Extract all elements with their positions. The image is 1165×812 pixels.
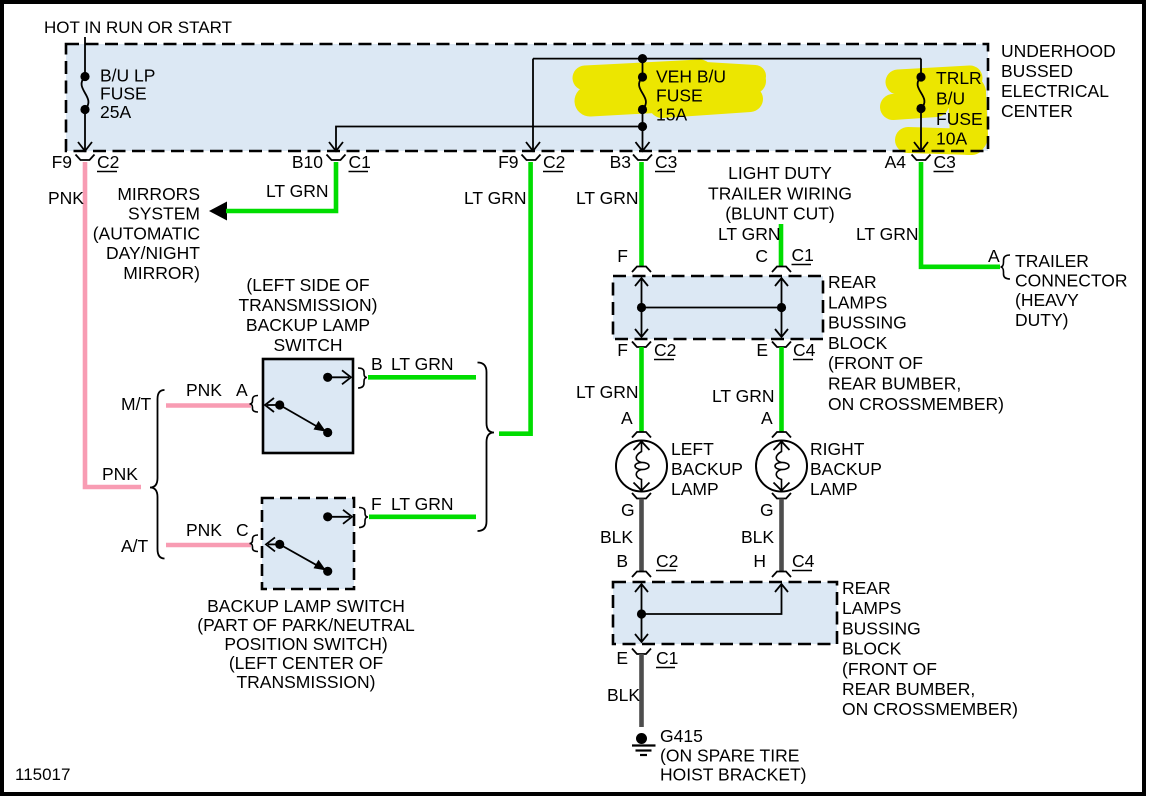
svg-text:A: A (988, 246, 1000, 266)
svg-text:C3: C3 (655, 152, 677, 172)
svg-text:(ON SPARE TIRE: (ON SPARE TIRE (660, 745, 799, 765)
svg-text:25A: 25A (100, 102, 131, 122)
svg-text:LT GRN: LT GRN (391, 354, 454, 374)
svg-text:B: B (616, 551, 628, 571)
svg-text:F9: F9 (52, 152, 72, 172)
svg-text:LT GRN: LT GRN (464, 188, 527, 208)
svg-text:LAMP: LAMP (810, 479, 858, 499)
svg-text:(BLUNT CUT): (BLUNT CUT) (725, 204, 835, 224)
svg-text:F: F (617, 246, 628, 266)
svg-text:DAY/NIGHT: DAY/NIGHT (106, 243, 200, 263)
label BACKUP LAMP SWITCH (PART OF PARK/NEUTRAL POSITION SWITCH) (LEFT CENTER OF TRANSMISSION) (197, 596, 415, 692)
svg-text:H: H (753, 551, 766, 571)
svg-text:BACKUP: BACKUP (810, 459, 882, 479)
svg-text:B/U: B/U (936, 89, 965, 109)
pin C C1 (block1 top right) (755, 245, 814, 272)
svg-text:BLOCK: BLOCK (828, 333, 888, 353)
wire LT GRN blunt cut (718, 224, 781, 267)
ground G415 (632, 726, 807, 785)
svg-text:LIGHT DUTY: LIGHT DUTY (728, 163, 832, 183)
pin E C4 (block1 bottom right) (756, 340, 815, 360)
pin E C1 (block2 bottom) (616, 648, 678, 668)
svg-text:A4: A4 (885, 152, 907, 172)
svg-text:C: C (236, 520, 249, 540)
svg-text:BUSSING: BUSSING (842, 618, 921, 638)
svg-text:REAR BUMBER,: REAR BUMBER, (842, 679, 975, 699)
svg-text:LT GRN: LT GRN (712, 386, 775, 406)
svg-text:C2: C2 (654, 340, 676, 360)
highlight TRLR B/U fuse (893, 78, 974, 142)
label UNDERHOOD BUSSED ELECTRICAL CENTER (1001, 41, 1116, 121)
wire LT GRN block1 to left lamp (576, 347, 642, 432)
svg-text:DUTY): DUTY) (1015, 310, 1068, 330)
svg-text:ON CROSSMEMBER): ON CROSSMEMBER) (828, 394, 1004, 414)
pin B3 C3 (610, 152, 678, 172)
svg-text:LT GRN: LT GRN (856, 224, 919, 244)
wire fuse B/U LP to pin F9 (78, 110, 92, 152)
svg-text:VEH B/U: VEH B/U (656, 67, 726, 87)
svg-text:ON CROSSMEMBER): ON CROSSMEMBER) (842, 699, 1018, 719)
label REAR LAMPS BUSSING BLOCK 1 (828, 272, 1004, 414)
pin B10 C1 (292, 152, 371, 172)
svg-text:TRANSMISSION): TRANSMISSION) (236, 672, 375, 692)
svg-text:B: B (371, 354, 383, 374)
svg-text:TRANSMISSION): TRANSMISSION) (238, 295, 377, 315)
svg-text:C4: C4 (793, 340, 816, 360)
brace combining B and F wires (478, 363, 495, 532)
wire junction to pin B3 (636, 127, 650, 152)
svg-text:REAR BUMBER,: REAR BUMBER, (828, 374, 961, 394)
svg-text:FUSE: FUSE (936, 109, 983, 129)
svg-text:C4: C4 (792, 551, 815, 571)
svg-text:A: A (236, 380, 248, 400)
wire LT GRN A4 to trailer connector (856, 162, 1000, 267)
svg-text:UNDERHOOD: UNDERHOOD (1001, 41, 1116, 61)
wire BLK right lamp to block2 (741, 499, 782, 572)
svg-text:(HEAVY: (HEAVY (1015, 290, 1079, 310)
pin H C4 (block2 top right) (753, 551, 814, 577)
svg-text:BLK: BLK (607, 685, 640, 705)
wire hot feed into box (84, 37, 86, 76)
svg-text:C2: C2 (543, 152, 565, 172)
wire LT GRN B (368, 354, 476, 377)
svg-text:PNK: PNK (186, 380, 222, 400)
svg-text:LAMPS: LAMPS (828, 292, 887, 312)
svg-text:HOIST BRACKET): HOIST BRACKET) (660, 765, 807, 785)
svg-text:PNK: PNK (48, 188, 84, 208)
svg-text:MIRRORS: MIRRORS (117, 184, 200, 204)
svg-text:CENTER: CENTER (1001, 101, 1073, 121)
wire fuse VEH to junction (638, 110, 647, 132)
svg-text:BUSSED: BUSSED (1001, 61, 1073, 81)
svg-text:(PART OF PARK/NEUTRAL: (PART OF PARK/NEUTRAL (197, 615, 415, 635)
wire bus top (533, 54, 921, 63)
wire junction to pin B10 (329, 127, 643, 152)
svg-text:CONNECTOR: CONNECTOR (1015, 271, 1127, 291)
svg-text:LT GRN: LT GRN (576, 188, 639, 208)
svg-text:A/T: A/T (121, 536, 149, 556)
svg-text:TRLR: TRLR (936, 68, 982, 88)
svg-text:LEFT: LEFT (671, 439, 714, 459)
svg-text:SWITCH: SWITCH (273, 335, 342, 355)
svg-text:E: E (616, 648, 628, 668)
svg-text:(LEFT CENTER OF: (LEFT CENTER OF (229, 653, 383, 673)
fuse VEH B/U 15A (638, 59, 726, 125)
svg-text:BLK: BLK (741, 527, 774, 547)
wire LT GRN F (369, 494, 476, 517)
svg-text:PNK: PNK (102, 464, 138, 484)
svg-text:ELECTRICAL: ELECTRICAL (1001, 81, 1109, 101)
fuse TRLR B/U 10A (916, 59, 982, 149)
svg-text:G: G (621, 500, 635, 520)
svg-text:PNK: PNK (186, 520, 222, 540)
svg-text:B/U LP: B/U LP (100, 66, 155, 86)
svg-text:F9: F9 (498, 152, 518, 172)
svg-text:C: C (755, 246, 768, 266)
svg-text:LAMP: LAMP (671, 479, 719, 499)
wire fuse TRLR to pin A4 (914, 109, 928, 152)
rear lamps bussing block 1 (613, 276, 823, 339)
svg-text:LT GRN: LT GRN (266, 181, 329, 201)
svg-text:LAMPS: LAMPS (842, 598, 901, 618)
label REAR LAMPS BUSSING BLOCK 2 (842, 578, 1018, 719)
svg-text:POSITION SWITCH): POSITION SWITCH) (224, 634, 387, 654)
svg-text:TRAILER: TRAILER (1015, 251, 1089, 271)
svg-text:A: A (761, 408, 773, 428)
wire BLK left lamp to block2 (600, 499, 642, 572)
svg-text:REAR: REAR (828, 272, 877, 292)
svg-text:15A: 15A (656, 105, 687, 125)
svg-text:(FRONT OF: (FRONT OF (842, 659, 937, 679)
svg-text:BACKUP LAMP SWITCH: BACKUP LAMP SWITCH (207, 596, 405, 616)
svg-text:C1: C1 (656, 648, 678, 668)
svg-text:LT GRN: LT GRN (718, 224, 781, 244)
svg-text:10A: 10A (936, 129, 967, 149)
underhood bussed electrical center box (66, 44, 988, 151)
svg-text:(FRONT OF: (FRONT OF (828, 353, 923, 373)
svg-text:REAR: REAR (842, 578, 891, 598)
svg-text:M/T: M/T (121, 394, 151, 414)
wire to pin F9 C2 (526, 59, 540, 151)
svg-text:(AUTOMATIC: (AUTOMATIC (93, 223, 200, 243)
svg-text:FUSE: FUSE (656, 86, 703, 106)
wire PNK to switches (85, 162, 141, 487)
wire LT GRN B10 to mirrors (226, 162, 336, 211)
svg-text:E: E (756, 340, 768, 360)
wire PNK A/T (166, 520, 251, 545)
svg-text:C1: C1 (792, 245, 814, 265)
svg-text:A: A (621, 408, 633, 428)
svg-text:LT GRN: LT GRN (391, 494, 454, 514)
svg-text:B3: B3 (610, 152, 631, 172)
svg-text:TRAILER WIRING: TRAILER WIRING (708, 183, 852, 203)
svg-text:F: F (617, 340, 628, 360)
pin F9 C2 (left) (52, 152, 120, 172)
svg-text:B10: B10 (292, 152, 323, 172)
svg-text:BACKUP LAMP: BACKUP LAMP (246, 315, 370, 335)
rear lamps bussing block 2 (613, 582, 837, 644)
svg-text:C1: C1 (349, 152, 371, 172)
svg-text:BLOCK: BLOCK (842, 639, 902, 659)
svg-text:MIRROR): MIRROR) (123, 263, 200, 283)
svg-text:FUSE: FUSE (100, 84, 147, 104)
pin F C2 (block1 bottom left) (617, 340, 676, 360)
wire PNK M/T (166, 380, 251, 406)
svg-text:BACKUP: BACKUP (671, 459, 743, 479)
trailer connector A (988, 246, 1127, 330)
label LIGHT DUTY TRAILER WIRING (BLUNT CUT) (708, 163, 852, 224)
pin B C2 (block2 top left) (616, 551, 678, 577)
svg-text:C3: C3 (934, 152, 956, 172)
svg-text:RIGHT: RIGHT (810, 439, 865, 459)
label (LEFT SIDE OF TRANSMISSION) BACKUP LAMP SWITCH (238, 275, 377, 355)
lamp left backup (616, 432, 743, 520)
svg-text:HOT IN RUN OR START: HOT IN RUN OR START (44, 18, 232, 37)
svg-text:115017: 115017 (15, 765, 70, 784)
svg-text:C2: C2 (656, 551, 678, 571)
pin F (block1 top left) (617, 246, 651, 272)
svg-text:C2: C2 (97, 152, 119, 172)
svg-text:BUSSING: BUSSING (828, 313, 907, 333)
svg-text:LT GRN: LT GRN (576, 382, 639, 402)
wire LT GRN B3 to bussing block (576, 162, 642, 267)
node MIRRORS SYSTEM (93, 184, 227, 283)
wire BLK block2 to ground (607, 654, 642, 727)
brace M/T A/T (121, 390, 165, 559)
switch S2 backup lamp switch (A/T) (250, 498, 369, 589)
pin F9 C2 (mid) (498, 152, 565, 172)
svg-text:BLK: BLK (600, 527, 633, 547)
svg-text:F: F (371, 494, 382, 514)
fuse B/U LP 25A (80, 66, 155, 122)
pin A4 C3 (885, 152, 956, 172)
svg-text:(LEFT SIDE OF: (LEFT SIDE OF (246, 275, 369, 295)
wire LT GRN combined to F9 C2 (464, 162, 531, 434)
switch S1 backup lamp switch (M/T) (250, 359, 368, 453)
wire LT GRN block1 to right lamp (712, 347, 782, 432)
svg-text:G: G (760, 500, 774, 520)
lamp right backup (756, 432, 882, 520)
svg-text:G415: G415 (660, 726, 703, 746)
highlight VEH B/U fuse (585, 72, 755, 105)
svg-text:SYSTEM: SYSTEM (128, 204, 200, 224)
